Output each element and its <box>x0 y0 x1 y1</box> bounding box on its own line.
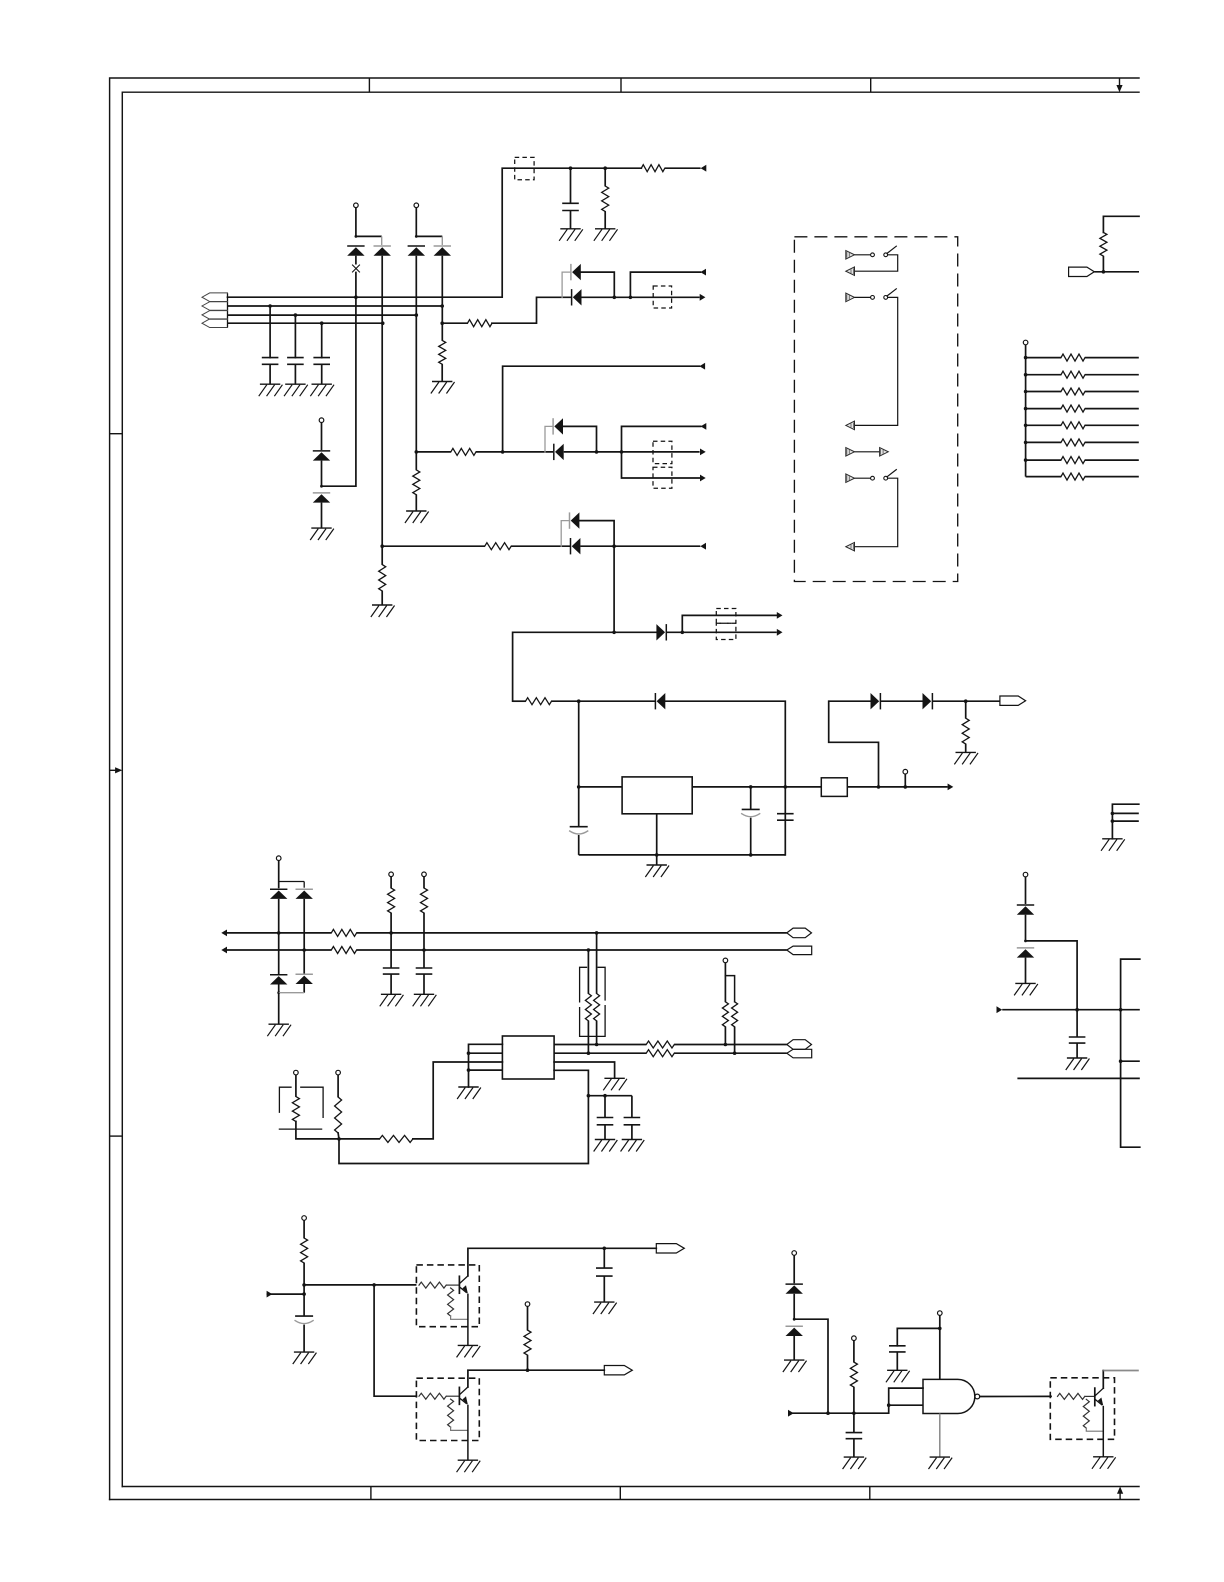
resistor R16 <box>331 929 356 936</box>
wire R4 to connector arrow <box>665 167 701 169</box>
ground D21 <box>785 1359 804 1361</box>
wire D2 to line4 <box>381 256 383 324</box>
node U1out/C7 <box>784 785 788 789</box>
wire R12 to block C diodes <box>511 545 571 547</box>
terminal T4 <box>903 769 908 774</box>
node netB/R8 <box>415 450 419 454</box>
tag TAG7 <box>656 1244 684 1253</box>
ground C1 <box>261 383 280 385</box>
resistor R13 <box>526 698 552 705</box>
wire lower line1 <box>554 1044 646 1046</box>
node net/vert <box>1119 1008 1123 1012</box>
terminal T11 <box>723 958 728 963</box>
node lowline2/R23 <box>733 1051 737 1055</box>
node D7 join <box>613 296 617 300</box>
wire T16 down <box>793 1255 795 1283</box>
resistor R26 <box>380 1135 413 1142</box>
node netB/upstub <box>501 450 505 454</box>
wire T2 to D4 <box>416 235 442 237</box>
wire T11 down <box>724 963 726 1002</box>
wire C12 stub <box>631 1096 633 1118</box>
wire R21 top <box>587 950 589 994</box>
wire blockB upper branch <box>622 426 701 452</box>
terminal T10 <box>422 872 427 877</box>
diode D3 <box>408 245 425 247</box>
ground U2 left <box>459 1086 478 1088</box>
node array row 2 <box>1024 373 1028 377</box>
capacitor C3 branch wire <box>321 323 323 357</box>
wire D8a anode to main <box>563 426 597 452</box>
wire R21 bottom <box>587 1021 589 1053</box>
wire netD to R13 <box>513 700 526 702</box>
wire C10 to ground <box>423 974 425 994</box>
resistor R23 <box>732 1002 738 1027</box>
ground C16 <box>888 1369 907 1371</box>
wire Z link <box>829 701 879 787</box>
wire VIN down <box>578 701 580 787</box>
terminal T16 <box>792 1251 797 1256</box>
node busline2/T8b <box>302 948 306 952</box>
resistor RA2 <box>1061 371 1085 378</box>
wire D9a anode to main <box>579 521 614 547</box>
arrow A6 <box>701 423 707 430</box>
wire T8 branch <box>279 881 305 883</box>
node line1/C4 <box>569 166 573 170</box>
wire R31 to emitter <box>451 1316 468 1319</box>
capacitor C9 <box>383 967 400 969</box>
arrow SA1 <box>846 251 855 260</box>
ground Q2 <box>458 1459 477 1461</box>
node lowline1/R22 <box>724 1043 728 1047</box>
wire T3 down <box>321 423 323 451</box>
ground 3line <box>1103 838 1122 840</box>
terminal T6 <box>1023 340 1028 345</box>
diode D7a <box>570 264 572 280</box>
wire blockA upper branch <box>630 272 700 297</box>
wire T17 down <box>853 1341 855 1363</box>
terminal T1 <box>354 203 359 208</box>
resistor RA3 <box>1061 388 1085 395</box>
resistor R27 <box>335 1097 342 1133</box>
resistor R10 <box>451 448 476 455</box>
wire R15 lower stub <box>1102 256 1104 272</box>
wire R8 stub <box>415 452 417 470</box>
diode D11 <box>654 693 656 709</box>
wire right net main <box>1002 1009 1140 1011</box>
node D8 join <box>595 450 599 454</box>
wire input step <box>889 1388 923 1413</box>
wire D19 stub <box>303 950 305 975</box>
wire U1 out pin <box>692 786 821 788</box>
terminal T17 <box>852 1336 857 1341</box>
wire array row 8 right <box>1085 476 1139 478</box>
tag TAG5 <box>787 1040 812 1050</box>
wire array row 7 left <box>1026 459 1061 461</box>
wire SW3 return <box>855 478 898 547</box>
wire Q1 base lead <box>446 1284 459 1286</box>
wire T4 stub <box>904 774 906 787</box>
resistor R19 <box>421 888 428 913</box>
wire clamp to input <box>794 1319 828 1413</box>
wire 3line top <box>1112 804 1138 839</box>
node VIN <box>577 699 581 703</box>
ground C13 <box>295 1351 314 1353</box>
tag TAG8 <box>604 1366 632 1375</box>
wire netC to R12 <box>382 545 485 547</box>
wire SW2 return <box>855 297 898 425</box>
switch SW1 <box>871 253 875 257</box>
wire array row 1 left <box>1026 357 1061 359</box>
wire mid bus line1 right <box>357 932 787 934</box>
node rail/C6 <box>749 853 753 857</box>
capacitor C5 <box>570 826 588 828</box>
arrow A8 <box>700 543 706 550</box>
wire D4 down <box>441 256 443 341</box>
ground C10 <box>415 993 434 995</box>
wire blockD upper branch <box>682 615 777 632</box>
wire Q2 emitter <box>467 1405 469 1461</box>
wire R23 bottom <box>734 1027 736 1053</box>
wire C15 stub <box>853 1413 855 1432</box>
resistor RA6 <box>1061 439 1085 446</box>
resistor R4 <box>641 165 665 172</box>
dual diode D7 package link <box>562 272 570 297</box>
wire D17 to line2 <box>303 899 305 950</box>
terminal T15 <box>525 1302 530 1307</box>
ground R8 <box>407 510 426 512</box>
node pin2 gnd <box>467 1051 471 1055</box>
diode D13 <box>931 693 933 709</box>
dual diode D8 package link <box>545 426 552 452</box>
wire C9 stub <box>390 933 392 968</box>
wire D6 to ground <box>321 503 323 528</box>
wire C12 to ground <box>631 1125 633 1140</box>
node vert stub <box>1119 1059 1123 1063</box>
wire C13 to ground <box>303 1325 305 1353</box>
node busline1/R20 <box>595 931 599 935</box>
wire U2 pin1 left <box>469 1044 503 1087</box>
resistor R6 <box>439 340 446 364</box>
capacitor C15 <box>846 1432 863 1434</box>
terminal T12 <box>336 1070 341 1075</box>
wire array row 2 left <box>1026 374 1061 376</box>
wire bus line2 <box>228 305 443 307</box>
wire Q1 emitter <box>467 1294 469 1346</box>
arrow A3 <box>700 294 706 301</box>
wire R6 to ground <box>441 364 443 381</box>
wire Q3 base lead <box>1085 1395 1095 1397</box>
resistor R32 Q2 base <box>419 1393 446 1399</box>
wire stub D2 anode <box>381 236 383 245</box>
resistor R24 <box>646 1041 674 1048</box>
capacitor C6 <box>742 808 760 810</box>
capacitor C1 branch wire <box>269 306 271 358</box>
diode D16 <box>270 888 287 890</box>
node rail/U1gnd <box>655 853 659 857</box>
arrow SA3 <box>846 293 855 302</box>
wire netB to R10 <box>416 451 451 453</box>
wire R10 to block B diodes <box>476 451 553 453</box>
capacitor C16 <box>889 1345 906 1347</box>
wire array row 6 left <box>1026 441 1061 443</box>
wire Q1 input <box>304 1284 416 1286</box>
node VOUT a <box>877 785 881 789</box>
wire U2 pin2 left <box>469 1052 503 1054</box>
wire C11 to ground <box>604 1125 606 1140</box>
node collector/R34 <box>526 1368 530 1372</box>
tag TAG4 <box>787 946 812 955</box>
wire R34 to node <box>527 1355 529 1370</box>
wire array row 5 right <box>1085 424 1139 426</box>
wire R20 bottom <box>596 1021 598 1045</box>
tag TAG1 <box>1000 696 1026 705</box>
transistor Q3 <box>1094 1388 1096 1406</box>
wire U2 pin3 right <box>554 1062 615 1078</box>
diode D2 <box>374 245 391 247</box>
wire C8 to ground <box>1076 1043 1078 1058</box>
transistor Q3 outline <box>1050 1378 1114 1440</box>
wire right C-shape <box>1121 959 1140 1147</box>
node line3/D3 <box>415 313 419 317</box>
ground D15 <box>1016 982 1035 984</box>
node U1 input <box>577 785 581 789</box>
wire NAND input <box>788 1412 889 1414</box>
wire D11 to right leg <box>665 701 785 855</box>
wire array row 8 left <box>1026 476 1061 478</box>
arrow SA6 <box>880 448 889 457</box>
diode D4 <box>434 245 451 247</box>
wire Q1 collector <box>468 1248 656 1276</box>
dashed box FB3 <box>653 441 672 463</box>
diode D5 <box>313 450 330 452</box>
arrow A4 <box>699 363 705 370</box>
ground C2 <box>286 383 305 385</box>
wire line4 net down <box>381 323 383 546</box>
diode D6 <box>313 492 330 494</box>
wire R35 to input <box>853 1387 855 1413</box>
wire R28 to node <box>296 1122 339 1139</box>
diode D15 <box>1017 947 1034 949</box>
node array row 4 <box>1024 407 1028 411</box>
wire D5 to junction <box>321 461 323 487</box>
wire A15 to node <box>267 1293 305 1295</box>
resistor RA7 <box>1061 457 1085 464</box>
capacitor C3 <box>313 357 330 359</box>
node loop/caps <box>587 1094 591 1098</box>
resistor R18 <box>388 888 395 913</box>
arrow A16 <box>788 1410 794 1417</box>
node busline1/T8 <box>277 931 281 935</box>
resistor R22 <box>722 1002 728 1027</box>
ground U3 <box>930 1456 949 1458</box>
resistor R14 <box>962 718 969 744</box>
wire stub D4 anode <box>441 236 443 245</box>
resistor bracket RN2 <box>279 1087 323 1129</box>
dual diode D9 package link <box>561 521 568 547</box>
wire D18 stub <box>278 933 280 975</box>
terminal T2 <box>414 203 419 208</box>
wire D12 to D13 <box>880 700 923 702</box>
terminal T14 <box>302 1216 307 1221</box>
ground R11 <box>373 604 392 606</box>
wire R13 to D11 <box>552 700 656 702</box>
wire D1 cathode <box>355 256 357 265</box>
wire resistor array bus <box>1025 345 1027 477</box>
wire block C main <box>580 545 700 547</box>
wire D21 to ground <box>793 1336 795 1360</box>
wire T10 down <box>423 877 425 888</box>
wire clamp to ground <box>278 993 280 1024</box>
wire mid bus line2 <box>227 949 331 951</box>
wire SW3 in <box>855 477 871 479</box>
wire array row 6 right <box>1085 441 1139 443</box>
wire U2 pin3 left long <box>413 1062 503 1139</box>
resistor R28 <box>292 1097 299 1122</box>
wire SW2 in <box>855 296 871 298</box>
wire T9 down <box>390 877 392 888</box>
wire C9 to ground <box>390 974 392 994</box>
node VOUT b <box>904 785 908 789</box>
wire Q2 base lead <box>446 1395 459 1397</box>
resistor R5 <box>602 186 609 212</box>
wire R7 to block A <box>492 297 571 323</box>
wire R11 stub <box>381 546 383 564</box>
wire netB up branch <box>503 366 700 452</box>
arrow A9 <box>777 629 783 636</box>
wire D15 to ground <box>1025 958 1027 984</box>
node blockB branch <box>620 450 624 454</box>
node T1 branch <box>355 235 358 238</box>
wire T15 down <box>527 1306 529 1330</box>
resistor R7 <box>468 320 493 327</box>
wire array row 3 left <box>1026 391 1061 393</box>
wire U2 pin4 left <box>469 1069 503 1071</box>
resistor R29 <box>301 1238 308 1263</box>
wire R23 branch <box>725 976 734 1002</box>
wire T1 down <box>355 208 357 237</box>
wire D3 down to node B <box>415 256 417 452</box>
dashed box FB5 <box>716 609 736 624</box>
node Q1 in b <box>302 1292 306 1296</box>
terminal T9 <box>389 872 394 877</box>
wire D10 to arrows <box>666 631 777 633</box>
diode D8a <box>552 418 554 434</box>
wire bottom loop <box>339 1070 588 1163</box>
resistor R36 Q3 base <box>1058 1393 1085 1399</box>
node T2 branch <box>415 235 418 238</box>
dashed enclosure SW block <box>794 237 957 582</box>
wire R15 upper to edge <box>1103 216 1139 232</box>
node busline1/R18 <box>389 931 393 935</box>
capacitor C10 <box>416 967 433 969</box>
resistor R34 <box>524 1330 531 1355</box>
wire C1 to ground <box>269 364 271 384</box>
arrow A10 <box>777 612 783 619</box>
wire D7a anode to main <box>581 272 615 297</box>
arrow SA7 <box>846 474 855 483</box>
diode D8b <box>553 444 555 460</box>
wire R5 to ground <box>604 212 606 229</box>
diode D19 <box>296 973 313 975</box>
wire C5 to rail <box>578 835 580 855</box>
node array row 6 <box>1024 441 1028 445</box>
arrow A5 <box>700 449 706 456</box>
wire C10 stub <box>423 950 425 968</box>
wire 3line bot <box>1112 820 1138 822</box>
wire clamp to net <box>1026 941 1078 1010</box>
ground Q1 <box>458 1344 477 1346</box>
dashed box FB6 <box>716 623 736 639</box>
capacitor C13 <box>295 1315 313 1317</box>
ground C4 <box>561 228 580 230</box>
capacitor C14 <box>596 1267 613 1269</box>
wire D17 stub <box>303 882 305 888</box>
arrow SA8 <box>846 542 855 551</box>
arrow A1 input <box>701 165 707 172</box>
NAND gate U3 <box>923 1379 975 1413</box>
wire C15 to ground <box>853 1439 855 1457</box>
capacitor C8 <box>1069 1036 1086 1038</box>
wire lower line1 right <box>674 1044 787 1046</box>
resistor R21 <box>585 994 591 1021</box>
node array row 7 <box>1024 458 1028 462</box>
diode D20 <box>786 1283 803 1285</box>
wire lower line2 <box>554 1052 646 1054</box>
wire array row 7 right <box>1085 459 1139 461</box>
ground R14 <box>956 751 975 753</box>
wire R11 to ground <box>381 591 383 605</box>
node 3line mid <box>1111 812 1115 816</box>
transistor Q1 outline <box>416 1265 479 1327</box>
ground Q3 <box>1094 1456 1113 1458</box>
resistor R17 <box>331 947 356 954</box>
wire node to C13 <box>303 1285 305 1316</box>
wire R27 to node <box>337 1133 340 1139</box>
wire C6 branch <box>750 787 752 810</box>
arrow A2 <box>700 269 706 276</box>
ground C8 <box>1068 1057 1087 1059</box>
node R26/R27 <box>337 1137 341 1141</box>
wire T2 down <box>415 208 417 237</box>
transistor Q2 outline <box>416 1378 479 1440</box>
wire 3line mid <box>1112 812 1138 814</box>
IC U2 <box>502 1036 554 1079</box>
terminal T3 <box>319 418 324 423</box>
wire C16 to ground <box>896 1352 898 1370</box>
wire R37 to emitter <box>1086 1428 1103 1431</box>
wire SW1 in <box>855 254 871 256</box>
wire SW link <box>855 451 880 453</box>
wire T1 to D2 <box>356 235 382 237</box>
ground R5 <box>596 228 615 230</box>
node VCC/C16 <box>938 1327 942 1331</box>
node U1out/C6 <box>749 785 753 789</box>
wire bus line4 <box>228 322 383 324</box>
node netC <box>380 544 384 548</box>
resistor RA1 <box>1061 354 1085 361</box>
wire TAG2 to edge <box>1094 271 1139 273</box>
wire C11 stub <box>604 1096 606 1118</box>
node Q1/Q2 split <box>372 1283 376 1287</box>
resistor RA8 <box>1061 473 1085 480</box>
resistor R31 Q1 be <box>448 1288 454 1316</box>
ground C15 <box>844 1456 863 1458</box>
wire Q3 collector <box>1102 1371 1104 1389</box>
connector J1 <box>227 293 229 327</box>
wire vert stub right <box>1121 1060 1140 1062</box>
wire split to Q2 <box>374 1285 416 1396</box>
node lowline1/R20 <box>595 1043 599 1047</box>
